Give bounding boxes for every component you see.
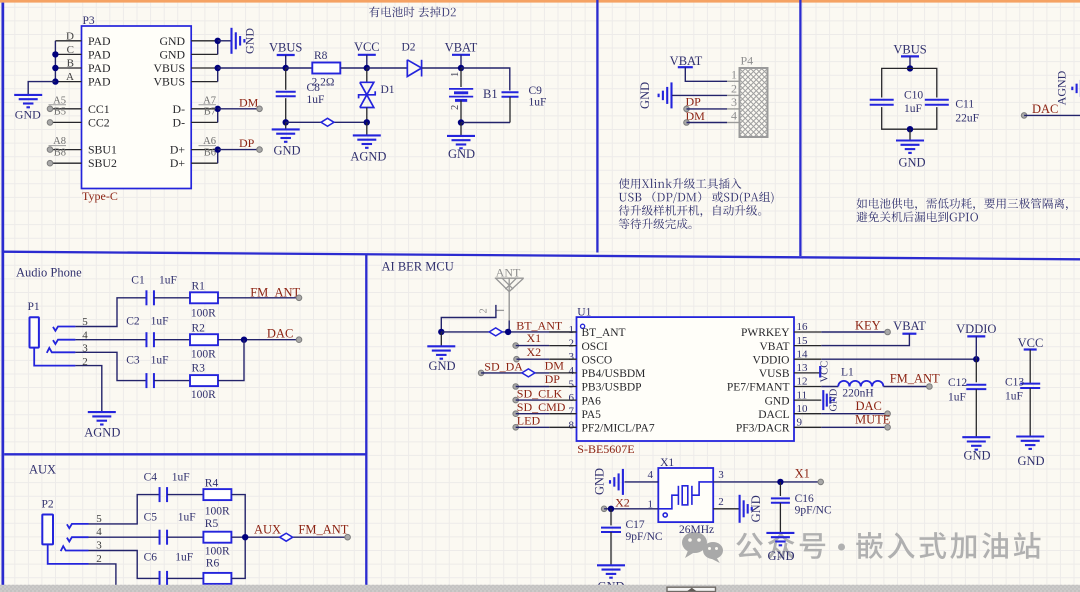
svg-text:B5: B5 xyxy=(54,107,66,118)
wire DP to P4 pin3 xyxy=(684,106,690,112)
no-erc diamond AUX xyxy=(280,533,293,541)
wire VBUS rail from P3 xyxy=(218,67,286,69)
svg-text:VBAT: VBAT xyxy=(759,341,789,353)
section divider vertical x=800 xyxy=(799,0,801,256)
svg-text:C13: C13 xyxy=(1005,376,1024,388)
svg-text:1uF: 1uF xyxy=(159,274,177,286)
svg-text:220nH: 220nH xyxy=(842,388,873,400)
svg-text:SD_DA: SD_DA xyxy=(484,359,523,373)
svg-text:VBUS: VBUS xyxy=(154,75,185,89)
svg-text:FM_ANT: FM_ANT xyxy=(890,372,940,386)
svg-text:GND: GND xyxy=(898,156,925,170)
svg-text:C6: C6 xyxy=(144,551,158,563)
note text battery power xyxy=(857,198,1068,210)
jack P2 contact pin 4 xyxy=(67,537,89,541)
jack P1 sleeve wire xyxy=(34,348,75,366)
svg-text:X1: X1 xyxy=(660,457,674,469)
svg-text:GND: GND xyxy=(765,395,790,407)
svg-text:4: 4 xyxy=(731,109,737,123)
ground GND left of crystal rotated xyxy=(622,469,624,495)
ground GND antenna xyxy=(440,332,442,346)
watermark text xyxy=(736,532,825,559)
svg-text:9pF/NC: 9pF/NC xyxy=(626,531,663,543)
svg-text:8: 8 xyxy=(569,419,575,431)
svg-text:2: 2 xyxy=(479,308,490,313)
capacitor C5 xyxy=(159,530,161,545)
wire VBAT to U1 pin15 xyxy=(821,334,909,346)
svg-text:D+: D+ xyxy=(170,143,186,157)
svg-text:C10: C10 xyxy=(904,90,923,102)
wire antenna GND branch xyxy=(441,305,496,332)
U1 left stub pin 2 xyxy=(549,345,576,347)
svg-text:2: 2 xyxy=(731,82,737,96)
svg-text:VDDIO: VDDIO xyxy=(752,354,789,366)
resistor R2 xyxy=(190,334,218,345)
jack P1 contact pin 5 xyxy=(53,327,75,331)
U1 right stub pin 16 xyxy=(794,331,821,333)
wire DACL to DAC pad xyxy=(821,413,887,415)
svg-text:VBAT: VBAT xyxy=(445,41,478,55)
wire SD_DA DM to PB4 xyxy=(478,370,484,376)
wire DP to PB3 xyxy=(513,384,519,390)
jack P1 body xyxy=(30,317,39,347)
svg-text:AGND: AGND xyxy=(84,425,120,439)
svg-text:PAD: PAD xyxy=(88,61,111,75)
svg-text:DAC: DAC xyxy=(856,399,882,413)
wire C3 to R3 xyxy=(154,380,190,382)
U1 right stub pin 14 xyxy=(794,358,821,360)
capacitor C8 xyxy=(285,68,287,90)
wire VDDIO long xyxy=(821,358,976,360)
svg-text:PAD: PAD xyxy=(88,75,111,89)
ground GND at U1 pin11 rotated xyxy=(822,390,824,410)
battery B1 xyxy=(460,68,462,87)
wire P1 pin3 to C3 xyxy=(75,352,146,380)
svg-text:7: 7 xyxy=(569,406,575,418)
svg-text:GND: GND xyxy=(448,147,475,161)
ground GND at P4 rotated xyxy=(670,82,672,108)
svg-text:1: 1 xyxy=(731,68,737,82)
capacitor C3 xyxy=(145,373,147,388)
wire R5 to FM_ANT pad xyxy=(232,536,348,538)
wire DM xyxy=(218,108,260,110)
svg-text:U1: U1 xyxy=(577,307,591,319)
svg-text:VBUS: VBUS xyxy=(893,42,926,56)
note text battery xyxy=(369,7,456,18)
svg-text:AGND: AGND xyxy=(350,149,386,163)
wire C8 to D1 bottom xyxy=(286,121,367,123)
svg-text:1uF: 1uF xyxy=(1005,391,1023,403)
wire to GND symbol xyxy=(218,40,231,42)
capacitor C13 xyxy=(1029,350,1031,384)
svg-text:B6: B6 xyxy=(204,148,216,159)
capacitor C11 xyxy=(925,99,949,101)
section divider horizontal y=250 xyxy=(2,252,1080,260)
svg-text:R4: R4 xyxy=(205,478,219,490)
svg-text:D2: D2 xyxy=(402,42,416,54)
U1 right stub pin 9 xyxy=(794,426,821,428)
U1 left stub pin 1 xyxy=(549,331,576,333)
ground GND below C8 xyxy=(285,122,287,129)
no-erc diamond on AGND net xyxy=(321,118,334,126)
svg-text:AUX: AUX xyxy=(254,523,281,537)
ground AGND below P1 xyxy=(88,411,116,413)
power port VCC at VUSB xyxy=(819,366,821,378)
svg-text:GND: GND xyxy=(1017,454,1044,468)
wire LED to PF2 xyxy=(513,425,519,431)
svg-text:100R: 100R xyxy=(191,389,216,401)
svg-text:22uF: 22uF xyxy=(955,113,979,125)
resistor R3 xyxy=(190,375,218,386)
crystal X1 body xyxy=(658,468,713,522)
svg-text:100R: 100R xyxy=(205,505,230,517)
wire R3 up to DAC net xyxy=(218,340,244,381)
svg-text:MUTE: MUTE xyxy=(855,412,891,426)
wire P2 pin5 to C4 xyxy=(89,495,160,524)
svg-text:1: 1 xyxy=(450,72,461,77)
svg-text:5: 5 xyxy=(96,513,102,525)
capacitor C4 xyxy=(159,487,161,502)
wire P1 pin5 to C1 xyxy=(75,298,146,327)
svg-text:D1: D1 xyxy=(381,84,395,96)
svg-text:100R: 100R xyxy=(205,545,230,557)
svg-text:Type-C: Type-C xyxy=(82,189,118,203)
svg-text:BT_ANT: BT_ANT xyxy=(582,327,626,339)
wire DP xyxy=(218,149,260,151)
ground GND below C12 xyxy=(962,436,990,438)
wire P3 pads to GND xyxy=(28,82,55,95)
svg-text:3: 3 xyxy=(96,540,102,552)
svg-text:3: 3 xyxy=(718,469,724,481)
wire DAC right edge xyxy=(1021,113,1027,119)
resistor R6 xyxy=(203,573,231,584)
resistor R8 xyxy=(312,63,340,74)
svg-text:GND: GND xyxy=(273,144,300,158)
wire SD_CMD to PA5 xyxy=(513,411,519,417)
wire VBAT to P4 pin1 xyxy=(685,67,727,81)
svg-text:GND: GND xyxy=(767,549,794,563)
svg-text:C17: C17 xyxy=(626,519,645,531)
bottom panel bar xyxy=(0,585,1080,592)
svg-text:CC1: CC1 xyxy=(88,102,110,116)
connector P3 body xyxy=(82,26,192,189)
wire R4 down to AUX net xyxy=(232,495,246,538)
P3 pin PAD row 3 stub xyxy=(55,67,81,69)
jack P1 contact pin 4 xyxy=(53,340,75,344)
ground GND below C16 xyxy=(766,532,794,534)
svg-text:VUSB: VUSB xyxy=(759,368,790,380)
top orange border line xyxy=(0,0,1080,3)
svg-text:R6: R6 xyxy=(206,558,220,570)
svg-text:1: 1 xyxy=(569,324,575,336)
connector P4 body hatched xyxy=(727,80,740,82)
ground GND left of P3 xyxy=(14,94,42,96)
ground GND at crystal pin2 rotated xyxy=(712,481,714,483)
jack P2 body xyxy=(42,515,53,545)
svg-text:1uF: 1uF xyxy=(307,94,325,106)
svg-text:P4: P4 xyxy=(741,53,754,67)
svg-text:GND: GND xyxy=(243,28,257,54)
svg-text:DM: DM xyxy=(239,95,259,109)
jack P2 contact pin 5 xyxy=(67,524,89,528)
svg-text:GND: GND xyxy=(749,495,763,522)
svg-text:VCC: VCC xyxy=(354,40,380,54)
P3 GND pins stubs xyxy=(191,40,218,42)
svg-text:VBUS: VBUS xyxy=(269,41,302,55)
wire X2 to crystal pin1 xyxy=(601,506,607,512)
svg-text:GND: GND xyxy=(428,359,455,373)
svg-text:100R: 100R xyxy=(191,348,216,360)
wire X1 to OSCI xyxy=(513,343,519,349)
capacitor C1 xyxy=(145,290,147,305)
wire PF3 to MUTE pad xyxy=(821,426,887,428)
capacitor C12 xyxy=(975,359,977,382)
svg-text:PF2/MICL/PA7: PF2/MICL/PA7 xyxy=(582,423,655,435)
wire P1 pin4 to C2 xyxy=(75,339,146,341)
svg-text:VDDIO: VDDIO xyxy=(956,322,996,336)
no-erc diamond BT_ANT xyxy=(489,328,502,336)
U1 right stub pin 10 xyxy=(794,413,821,415)
U1 left stub pin 5 xyxy=(549,386,576,388)
wire SD_CLK to PA6 xyxy=(513,397,519,403)
svg-text:C1: C1 xyxy=(131,274,145,286)
svg-text:5: 5 xyxy=(569,379,575,391)
U1 right stub pin 12 xyxy=(794,386,821,388)
section divider horizontal y=454 xyxy=(4,453,366,455)
svg-text:GND: GND xyxy=(159,34,185,48)
wire R8 to VCC xyxy=(341,67,367,69)
svg-text:GND: GND xyxy=(963,449,990,463)
svg-text:1uF: 1uF xyxy=(904,103,922,115)
svg-text:9pF/NC: 9pF/NC xyxy=(795,505,832,517)
jack P2 sleeve wire xyxy=(48,544,89,564)
wire VBAT to C9 branch xyxy=(461,68,510,91)
svg-text:B7: B7 xyxy=(204,107,216,118)
svg-text:C3: C3 xyxy=(126,355,140,367)
svg-text:OSCO: OSCO xyxy=(582,354,613,366)
svg-text:LED: LED xyxy=(517,414,541,428)
svg-text:C12: C12 xyxy=(948,377,967,389)
wire P3 pad bus vertical xyxy=(54,41,56,82)
svg-text:R2: R2 xyxy=(192,322,206,334)
svg-text:Audio Phone: Audio Phone xyxy=(16,266,82,280)
svg-text:PF3/DACR: PF3/DACR xyxy=(736,423,790,435)
wire R1 to FM_ANT pad xyxy=(218,297,299,299)
svg-text:2: 2 xyxy=(96,553,102,565)
wire BT_ANT xyxy=(441,331,576,333)
svg-text:1uF: 1uF xyxy=(529,97,547,109)
U1 right stub pin 11 xyxy=(794,399,821,401)
svg-text:R1: R1 xyxy=(192,281,206,293)
wire P2 pin3 to C6 xyxy=(89,551,160,579)
wire PWRKEY to KEY pad xyxy=(821,331,887,333)
svg-text:VBAT: VBAT xyxy=(893,319,926,333)
svg-text:4: 4 xyxy=(648,469,654,481)
svg-text:D-: D- xyxy=(173,115,186,129)
wire VCC to D2 xyxy=(367,67,408,69)
svg-text:C2: C2 xyxy=(126,315,140,327)
svg-text:R8: R8 xyxy=(314,50,328,62)
wire R2 to DAC pad xyxy=(218,339,299,341)
wire C6 to R6 xyxy=(167,577,203,579)
wire C4 to R4 xyxy=(167,494,203,496)
svg-text:C16: C16 xyxy=(795,493,814,505)
svg-text:1uF: 1uF xyxy=(178,512,196,524)
wire DM to P4 pin4 xyxy=(684,120,690,126)
U1 left stub pin 3 xyxy=(549,358,576,360)
wire C2 to R2 xyxy=(154,339,190,341)
wire crystal pin3 to X1 pad xyxy=(713,481,821,483)
svg-text:3: 3 xyxy=(569,351,575,363)
resistor R1 xyxy=(190,292,218,303)
svg-text:PA5: PA5 xyxy=(582,409,602,421)
svg-text:SBU2: SBU2 xyxy=(88,156,117,170)
svg-text:D-: D- xyxy=(173,102,186,116)
P3 pin PAD row 2 stub xyxy=(55,53,81,55)
svg-text:P1: P1 xyxy=(28,301,40,313)
inductor L1 xyxy=(821,386,838,388)
svg-text:DP: DP xyxy=(545,372,561,386)
capacitor C2 xyxy=(145,332,147,347)
TVS diode D1 xyxy=(366,68,368,82)
svg-text:DP: DP xyxy=(239,136,255,150)
resistor R4 xyxy=(203,489,231,500)
wire L1 to FM_ANT pad xyxy=(883,386,929,388)
diode D2 xyxy=(407,60,421,77)
svg-text:D: D xyxy=(66,30,74,42)
P3 pin PAD row 4 stub xyxy=(55,81,81,83)
capacitor C9 xyxy=(502,91,519,93)
svg-text:1uF: 1uF xyxy=(172,472,190,484)
svg-text:PE7/FMANT: PE7/FMANT xyxy=(727,382,790,394)
wire X2 to OSCO xyxy=(514,356,520,362)
capacitor C17 xyxy=(610,509,612,526)
svg-text:B8: B8 xyxy=(54,148,66,159)
svg-text:C4: C4 xyxy=(144,472,158,484)
wire GND to P4 pin2 xyxy=(672,94,727,96)
section divider vertical x=597 xyxy=(596,0,598,253)
U1 left stub pin 4 xyxy=(549,372,576,374)
svg-text:D+: D+ xyxy=(170,156,186,170)
svg-text:PAD: PAD xyxy=(88,47,111,61)
note text upgrade instructions xyxy=(619,178,742,189)
svg-text:PAD: PAD xyxy=(88,34,111,48)
U1 left stub pin 7 xyxy=(549,413,576,415)
svg-text:R3: R3 xyxy=(192,363,206,375)
svg-text:GND: GND xyxy=(829,388,840,411)
svg-text:S-BE5607E: S-BE5607E xyxy=(577,442,634,456)
svg-text:AI BER MCU: AI BER MCU xyxy=(382,259,454,273)
no-erc diamond DM xyxy=(522,369,535,377)
svg-text:SD_CLK: SD_CLK xyxy=(517,386,563,400)
wire D2 to VBAT xyxy=(422,67,461,69)
svg-text:1uF: 1uF xyxy=(175,551,193,563)
wire C5 to R5 xyxy=(167,536,203,538)
svg-text:4: 4 xyxy=(569,365,575,377)
capacitor C16 xyxy=(779,482,781,496)
svg-text:C5: C5 xyxy=(144,512,158,524)
left sheet border xyxy=(2,3,5,585)
wire C10 C11 loop xyxy=(882,68,937,97)
ground GND below B1 xyxy=(460,123,462,136)
P3 D- stubs xyxy=(191,108,218,110)
resistor R5 xyxy=(203,532,231,543)
U1 right stub pin 15 xyxy=(794,345,821,347)
watermark wechat logo xyxy=(682,532,723,563)
svg-text:C11: C11 xyxy=(955,99,974,111)
svg-text:A: A xyxy=(66,71,74,83)
section divider vertical x=366 xyxy=(365,254,367,585)
wire P2 pin4 to C5 xyxy=(89,536,160,538)
svg-text:R5: R5 xyxy=(205,518,219,530)
wire R6 up to AUX net xyxy=(232,537,246,578)
svg-text:VCC: VCC xyxy=(820,361,831,383)
svg-text:B1: B1 xyxy=(483,87,498,101)
crystal X1 inner symbol xyxy=(658,482,713,517)
junction dots P3 pad bus xyxy=(52,51,58,57)
svg-text:SBU1: SBU1 xyxy=(88,143,117,157)
svg-text:AUX: AUX xyxy=(29,463,56,477)
svg-text:L1: L1 xyxy=(841,367,854,379)
ground GND below C13 xyxy=(1016,435,1044,437)
svg-text:KEY: KEY xyxy=(855,319,881,333)
wire VBUS to R8 xyxy=(286,67,313,69)
svg-text:PWRKEY: PWRKEY xyxy=(741,327,790,339)
svg-text:100R: 100R xyxy=(191,307,216,319)
svg-text:C: C xyxy=(67,44,74,56)
svg-text:VCC: VCC xyxy=(1018,336,1044,350)
wire crystal pin4 to GND xyxy=(625,481,659,483)
jack P1 contact pin 3 xyxy=(47,348,76,353)
capacitor C10 xyxy=(870,99,894,101)
svg-text:X2: X2 xyxy=(527,345,542,359)
svg-text:P3: P3 xyxy=(83,15,95,27)
svg-text:GND: GND xyxy=(15,108,41,122)
ground GND below C10 C11 xyxy=(909,129,911,140)
svg-text:PB3/USBDP: PB3/USBDP xyxy=(582,382,642,394)
svg-text:FM_ANT: FM_ANT xyxy=(298,523,348,537)
P3 D+ stubs xyxy=(191,149,218,151)
svg-text:GND: GND xyxy=(159,47,185,61)
jack P2 contact pin 3 xyxy=(61,546,89,551)
svg-text:DACL: DACL xyxy=(758,409,789,421)
svg-text:1uF: 1uF xyxy=(151,355,169,367)
svg-text:26MHz: 26MHz xyxy=(679,524,714,536)
U1 left stub pin 6 xyxy=(549,399,576,401)
svg-text:PB4/USBDM: PB4/USBDM xyxy=(582,368,646,380)
svg-text:VBUS: VBUS xyxy=(154,61,185,75)
svg-text:2: 2 xyxy=(82,356,88,368)
svg-text:OSCI: OSCI xyxy=(582,341,608,353)
svg-text:X1: X1 xyxy=(795,467,810,481)
P3 VBUS pins stubs xyxy=(191,67,218,69)
svg-text:1uF: 1uF xyxy=(948,392,966,404)
svg-text:6: 6 xyxy=(569,392,575,404)
svg-text:2: 2 xyxy=(569,338,575,350)
svg-text:SD_CMD: SD_CMD xyxy=(517,400,566,414)
ground right of P3 rotated xyxy=(230,28,232,54)
svg-text:AGND: AGND xyxy=(1055,70,1069,105)
svg-text:B: B xyxy=(67,58,74,70)
U1 left stub pin 8 xyxy=(549,426,576,428)
MCU U1 body xyxy=(577,317,795,441)
ground AGND below D1 xyxy=(366,122,368,135)
svg-text:DAC: DAC xyxy=(267,327,293,341)
P3 pin PAD row 1 stub xyxy=(55,40,81,42)
svg-text:2: 2 xyxy=(718,496,724,508)
svg-text:P2: P2 xyxy=(42,499,54,511)
svg-text:DM: DM xyxy=(545,358,565,372)
